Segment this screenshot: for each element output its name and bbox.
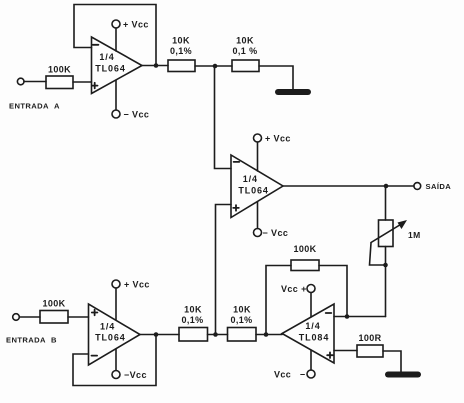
svg-text:SAÍDA: SAÍDA (426, 182, 452, 191)
svg-text:0,1%: 0,1% (181, 315, 203, 325)
svg-text:TL064: TL064 (95, 63, 126, 73)
svg-text:1/4: 1/4 (99, 52, 114, 62)
wire pot bottom (385, 247, 387, 317)
node junction (383, 263, 388, 268)
resistor R3 10K 0,1% (232, 36, 259, 72)
svg-text:+ Vcc: + Vcc (124, 280, 150, 290)
op-amp U1b (231, 155, 283, 218)
svg-text:− Vcc: − Vcc (263, 228, 289, 238)
svg-text:TL064: TL064 (238, 186, 269, 196)
terminal ENTRADA A (17, 78, 24, 85)
wire 100R to ground (383, 351, 401, 372)
svg-text:− Vcc: − Vcc (124, 110, 150, 120)
svg-text:100K: 100K (42, 299, 65, 309)
svg-text:Vcc +: Vcc + (281, 284, 307, 294)
op-amp U1c (89, 304, 141, 365)
terminal -Vcc (U1c) (112, 371, 120, 379)
wire (310, 350, 312, 370)
wire output U1c (140, 334, 179, 336)
wire (115, 80, 117, 110)
wire to U1b inverting input (215, 66, 232, 169)
wire (115, 349, 117, 371)
resistor R4 100K (40, 299, 68, 324)
svg-text:1/4: 1/4 (305, 321, 320, 331)
svg-text:100K: 100K (48, 65, 71, 75)
svg-text:100K: 100K (293, 244, 316, 254)
svg-text:+ Vcc: + Vcc (265, 134, 291, 144)
resistor R8 100R (357, 333, 383, 357)
terminal +Vcc (U1a) (112, 20, 120, 28)
svg-text:10K: 10K (236, 36, 254, 46)
svg-text:1/4: 1/4 (100, 322, 115, 332)
svg-text:TL064: TL064 (95, 333, 126, 343)
resistor R1 100K (46, 65, 73, 89)
wire feedback U1a (74, 5, 156, 66)
terminal ENTRADA B (13, 314, 20, 321)
node junction (154, 332, 159, 337)
svg-text:10K: 10K (172, 36, 190, 46)
terminal Vcc+ (U1d) (307, 285, 315, 293)
wire to U1b non-inverting input (216, 205, 232, 335)
wire (310, 293, 312, 318)
wire output U1a (142, 65, 168, 67)
resistor R6 10K 0,1% (228, 305, 257, 342)
node junction (213, 64, 218, 69)
wire (256, 334, 282, 336)
wire U1d non-inverting stub (334, 350, 357, 352)
resistor R7 100K feedback (291, 244, 319, 271)
op-amp U1d (282, 304, 334, 363)
terminal SAIDA (414, 183, 421, 190)
terminal -Vcc (U1a) (112, 110, 120, 118)
wire (68, 316, 89, 318)
wire (195, 65, 232, 67)
node junction (154, 63, 159, 68)
svg-text:Vcc −: Vcc − (274, 370, 306, 380)
wire 100K right to inverting node (319, 266, 347, 317)
svg-text:1/4: 1/4 (243, 174, 258, 184)
svg-text:ENTRADA B: ENTRADA B (6, 336, 57, 345)
wire U1d inverting stub (334, 316, 347, 318)
ground (388, 372, 418, 378)
svg-text:ENTRADA A: ENTRADA A (9, 102, 60, 111)
wire (115, 28, 117, 51)
potentiometer P1 1M (370, 220, 421, 265)
wire (257, 142, 259, 171)
svg-text:1M: 1M (408, 230, 421, 240)
resistor R5 10K 0,1% (179, 305, 208, 342)
wire SAIDA junction down to pot (385, 186, 387, 220)
svg-text:−Vcc: −Vcc (124, 370, 147, 380)
wire (259, 66, 293, 89)
node junction (264, 332, 269, 337)
svg-text:TL084: TL084 (299, 333, 330, 343)
wire (24, 81, 46, 83)
node junction (345, 314, 350, 319)
wire (257, 202, 259, 229)
svg-text:0,1%: 0,1% (170, 46, 192, 56)
svg-text:0,1 %: 0,1 % (232, 46, 257, 56)
wire (73, 81, 92, 83)
op-amp U1a (92, 37, 143, 94)
svg-text:+ Vcc: + Vcc (123, 20, 149, 30)
node junction (213, 332, 218, 337)
svg-text:10K: 10K (184, 305, 202, 315)
ground (278, 89, 308, 95)
svg-text:100R: 100R (358, 333, 381, 343)
svg-text:10K: 10K (233, 305, 251, 315)
wire (19, 316, 40, 318)
wire (115, 288, 117, 320)
wire output U1b to SAIDA (283, 185, 414, 187)
terminal +Vcc (U1b) (254, 134, 262, 142)
svg-text:0,1%: 0,1% (230, 315, 252, 325)
wire to U1d inverting input (347, 316, 386, 318)
node junction (384, 184, 389, 189)
terminal Vcc- (U1d) (307, 370, 315, 378)
resistor R2 10K 0,1% (168, 36, 195, 72)
terminal -Vcc (U1b) (254, 229, 262, 237)
wire (208, 334, 228, 336)
terminal +Vcc (U1c) (112, 280, 120, 288)
wire feedback U1c (73, 335, 156, 386)
wire 100K left to U1d output (266, 266, 291, 335)
